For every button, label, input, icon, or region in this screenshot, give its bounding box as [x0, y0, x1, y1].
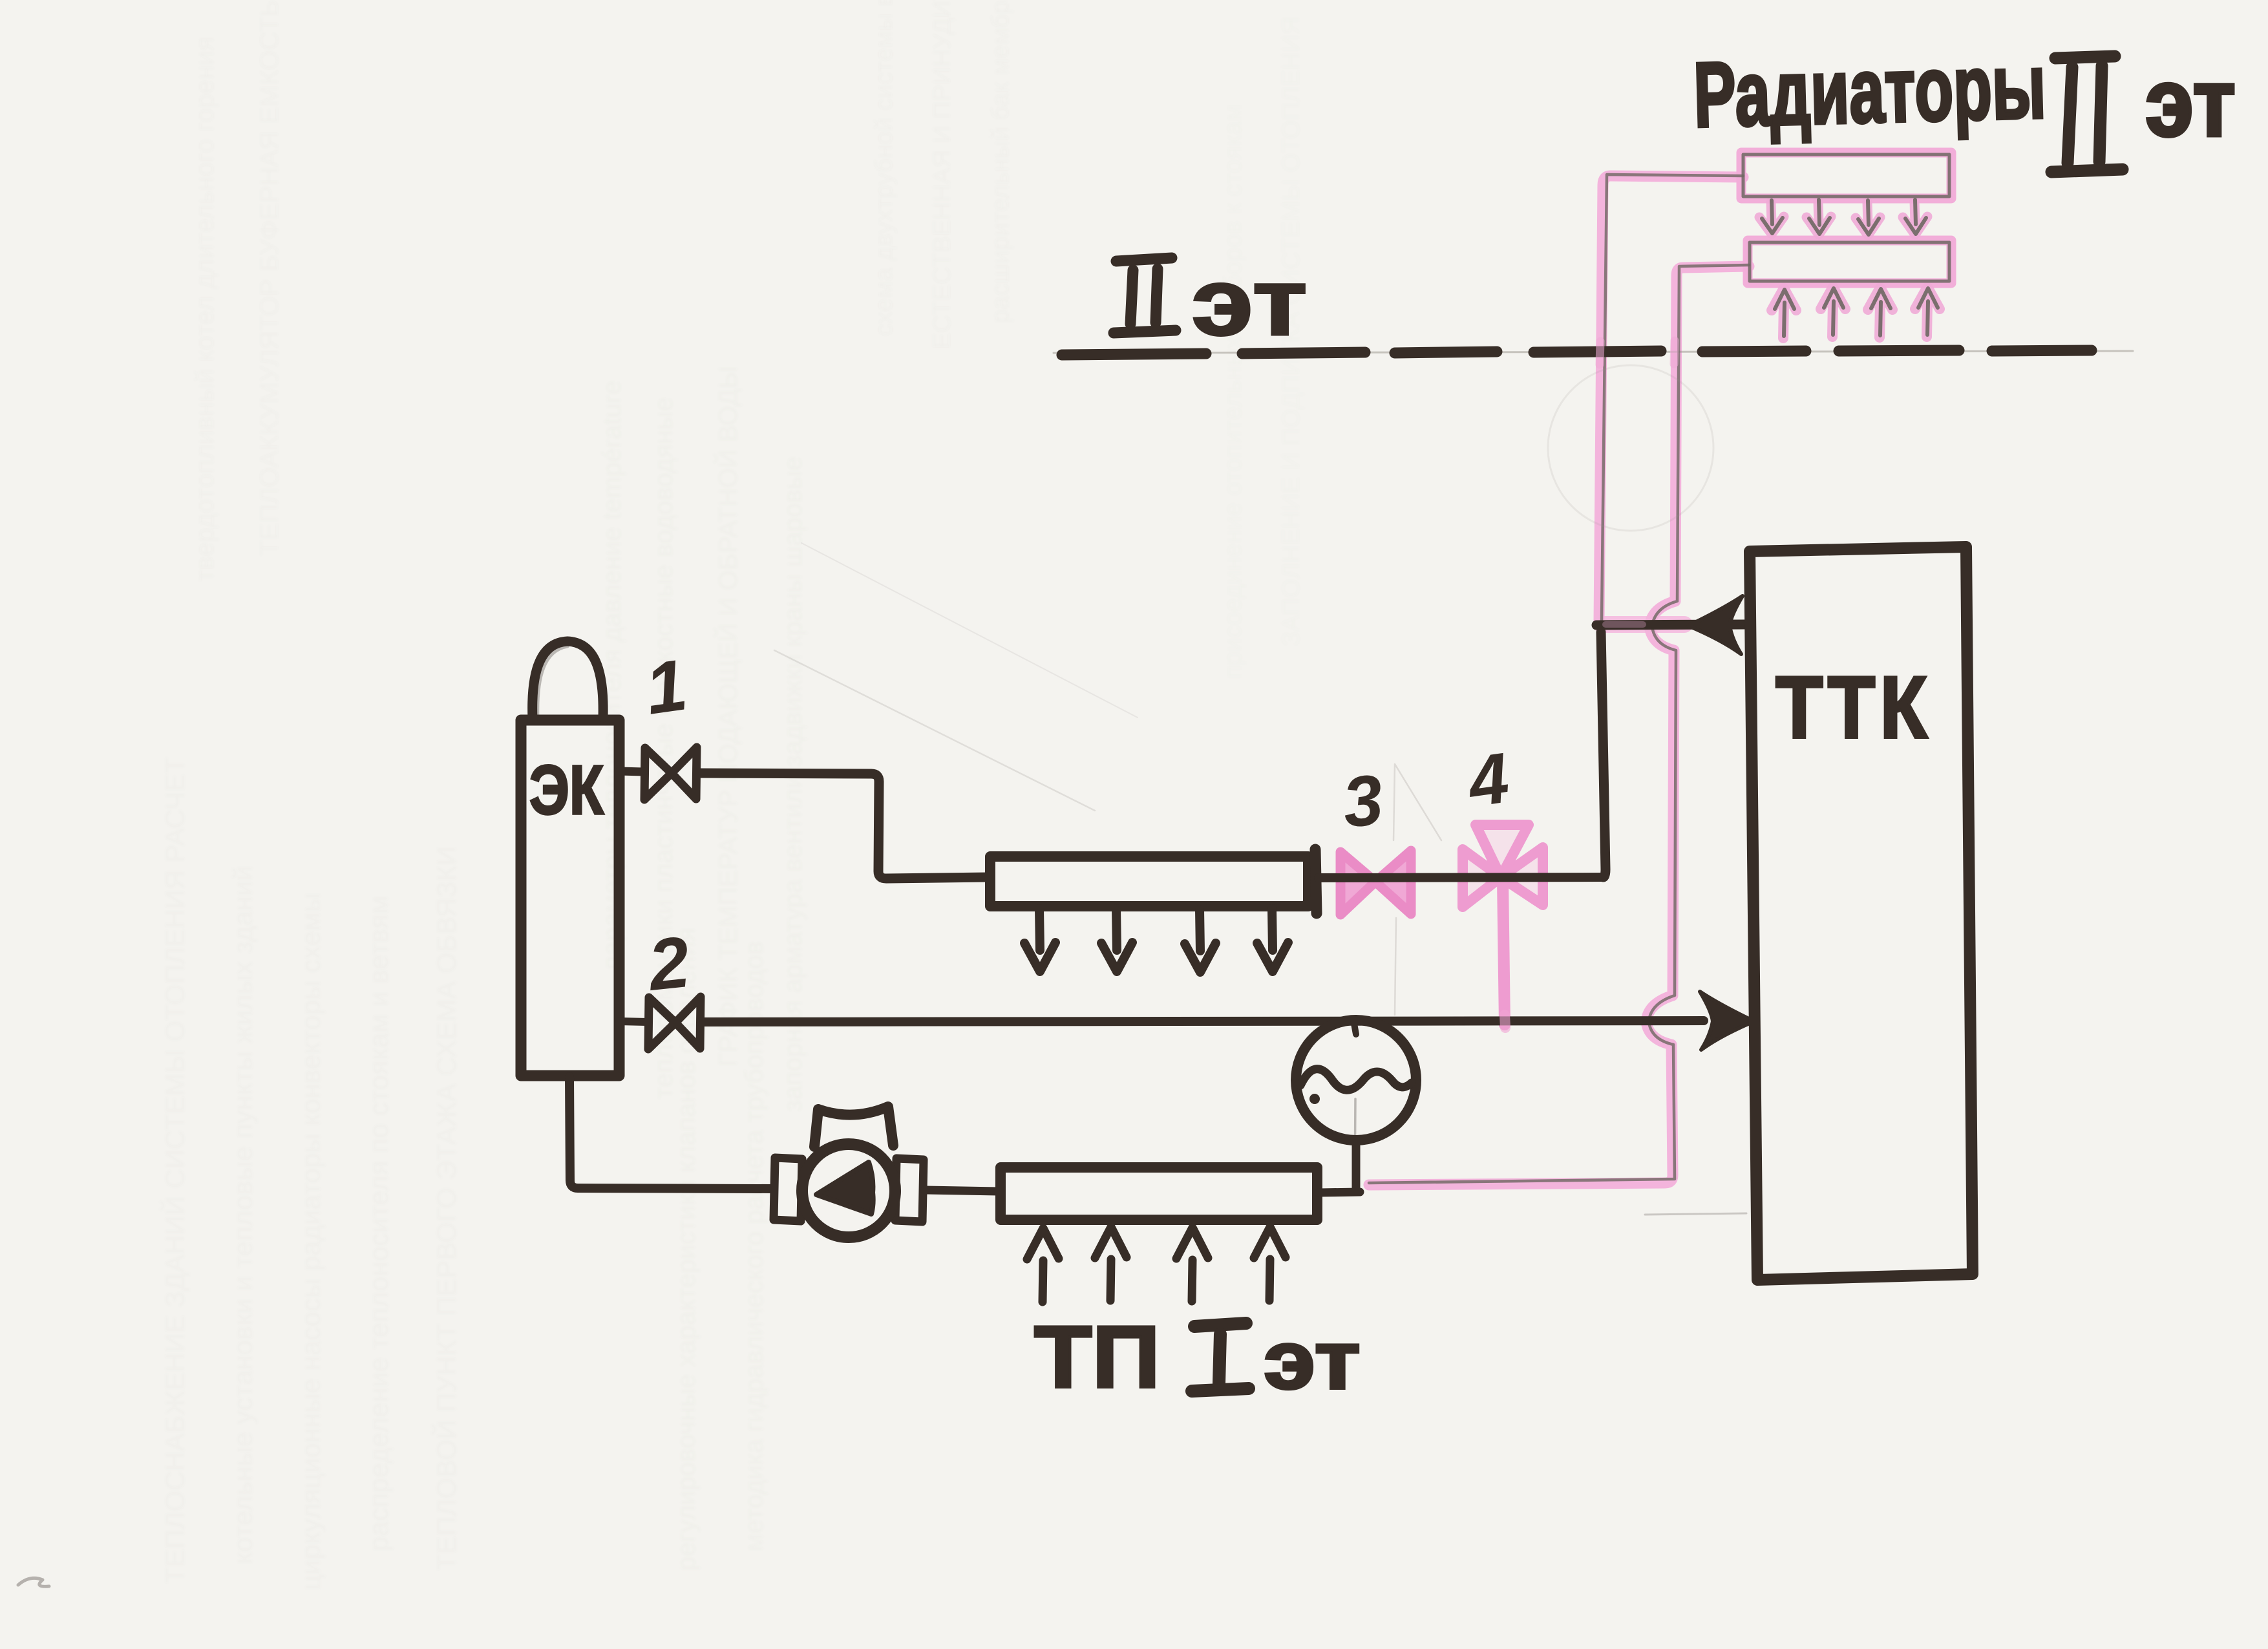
pink highlight on down arrows between radiators — [1759, 201, 1927, 235]
arrowhead pointing left out of TTK (supply) — [1688, 596, 1743, 654]
pencil X inside valve 1 — [646, 750, 695, 797]
pencil construction marks near valve 3 — [1394, 764, 1441, 1015]
down arrows under E1 — [1024, 909, 1288, 972]
pencil cores of down arrows between radiators — [1762, 200, 1926, 235]
pink crossing over floor dash (return riser) — [1674, 341, 1675, 364]
label roman I — [1192, 1323, 1249, 1391]
pencil cores of up arrows below radiator R-B — [1775, 288, 1938, 336]
pink trace over supply pipe near tee — [1606, 621, 1643, 628]
svg-text:ЭК: ЭК — [529, 750, 604, 829]
riser wire up to TTK supply tee — [1601, 632, 1606, 877]
pump right flange — [895, 1158, 924, 1222]
pump impeller triangle (points left) — [816, 1162, 873, 1214]
svg-text:ТТК: ТТК — [1775, 658, 1932, 756]
pencil stem of thermometer into pipe — [1355, 1099, 1355, 1189]
label roman II of title — [2051, 56, 2123, 172]
floor line II Et (thick black dashes) — [1062, 350, 2092, 355]
svg-text:расширительный бак мембранный: расширительный бак мембранный открытый к… — [987, 0, 1014, 323]
expansion tank EK body — [521, 720, 619, 1076]
pump top cap — [814, 1107, 893, 1147]
svg-text:присоединение отопительных при: присоединение отопительных приборов к ст… — [1220, 104, 1247, 679]
pink crossing over floor dash (supply riser) — [1600, 341, 1600, 365]
E1 right end cap — [1315, 849, 1317, 913]
svg-text:запорная арматура вентили задв: запорная арматура вентили задвижки краны… — [779, 456, 807, 1112]
thermometer bulb circle — [1296, 1020, 1416, 1140]
wire EK bottom down and right to pump — [569, 1077, 774, 1189]
pencil scribble bottom-left corner — [18, 1578, 49, 1586]
pencil arc inside EK dome — [538, 646, 567, 719]
thermometer top nick — [1353, 1020, 1356, 1034]
pink halo where marker traced supply tee pipe — [1602, 616, 1684, 633]
svg-text:ГРАФИК ТЕМПЕРАТУР ПОДАЮЩЕЙ И О: ГРАФИК ТЕМПЕРАТУР ПОДАЮЩЕЙ И ОБРАТНОЙ ВО… — [713, 366, 743, 1067]
svg-text:твердотопливный котел длительн: твердотопливный котел длительного горени… — [191, 37, 219, 582]
wire EK to valve 1 — [619, 771, 644, 772]
pump left flange — [774, 1158, 802, 1221]
valve 3 pink bowtie — [1341, 852, 1375, 915]
wire EK to valve 2 — [619, 1021, 648, 1022]
EK dome cap — [533, 641, 603, 719]
TTK boiler body — [1750, 547, 1973, 1280]
pencil inner outline radiator R-B — [1750, 242, 1949, 281]
svg-text:ЕСТЕСТВЕННАЯ И ПРИНУДИТЕЛЬНАЯ: ЕСТЕСТВЕННАЯ И ПРИНУДИТЕЛЬНАЯ ЦИРКУЛЯЦИЯ — [929, 0, 956, 349]
wire TTK supply tee to TTK wall — [1596, 624, 1745, 625]
svg-text:Радиаторы: Радиаторы — [1692, 35, 2047, 147]
arrowhead pointing right into TTK (return) — [1700, 992, 1754, 1050]
pink tip of valve-4 stem over return pipe — [1505, 1015, 1505, 1028]
pencil trace inside pink return line with hops — [1369, 265, 1749, 1183]
valve 4 pink three-way cock with stem — [1463, 825, 1543, 1025]
svg-text:эт: эт — [1191, 249, 1308, 356]
pencil ghost circle near risers — [1548, 365, 1713, 531]
wire valve 1 to corner, down, to exchanger E1 — [697, 773, 988, 878]
heat exchanger E1 (1st floor heating coil) body — [990, 856, 1308, 906]
pencil faint line right of TP exchanger — [1645, 1213, 1746, 1215]
thermometer wavy level line — [1300, 1069, 1412, 1090]
svg-text:ТЕПЛОАККУМУЛЯТОР БУФЕРНАЯ ЕМКО: ТЕПЛОАККУМУЛЯТОР БУФЕРНАЯ ЕМКОСТЬ СИСТЕМ… — [255, 0, 284, 556]
radiator R-A pink outline — [1741, 153, 1951, 198]
pump body circle — [802, 1144, 895, 1237]
valve 2 bowtie — [648, 997, 701, 1049]
svg-text:распределение теплоносителя по: распределение теплоносителя по стоякам и… — [363, 895, 394, 1551]
wire pump to TP exchanger E2 — [925, 1190, 999, 1191]
up arrows under E2 — [1027, 1227, 1286, 1302]
pencil inner outline radiator R-A — [1743, 154, 1949, 197]
svg-text:методика гидравлического расче: методика гидравлического расчета трубопр… — [740, 941, 768, 1551]
wire E1 through valves 3,4 to riser corner — [1319, 877, 1602, 878]
svg-text:эт: эт — [2145, 48, 2236, 156]
label "II" of floor line — [1114, 258, 1176, 333]
radiator R-B pink outline — [1748, 240, 1951, 283]
svg-text:котельные установки и тепловые: котельные установки и тепловые пункты жи… — [228, 866, 258, 1564]
pencil construction diagonal upper middle — [801, 543, 1138, 718]
wire pink return line from radiator R-B down to TP heat exchanger outlet, with hops over black pipes — [1369, 266, 1749, 1185]
valve 1 bowtie — [644, 747, 697, 800]
pink highlight on up arrows below radiator R-B — [1772, 287, 1940, 338]
TP exchanger E2 body — [1001, 1167, 1317, 1220]
pencil guide under dashed floor line — [1054, 351, 2133, 353]
return wire valve 2 to TTK (long) — [701, 1021, 1704, 1022]
thermometer stem — [1352, 1140, 1361, 1191]
thermometer dot — [1309, 1094, 1320, 1104]
pencil trace inside pink supply line — [1602, 175, 1743, 622]
pencil construction diagonal above exchanger — [774, 650, 1095, 811]
svg-text:3: 3 — [1339, 760, 1387, 843]
svg-text:ТЕПЛОСНАБЖЕНИЕ ЗДАНИЙ СИСТЕМЫ: ТЕПЛОСНАБЖЕНИЕ ЗДАНИЙ СИСТЕМЫ ОТОПЛЕНИЯ … — [159, 757, 190, 1584]
wire E2 right end to thermometer stem — [1319, 1192, 1360, 1193]
svg-text:эт: эт — [1264, 1314, 1361, 1407]
svg-text:ТЕПЛОВОЙ ПУНКТ ПЕРВОГО ЭТАЖА С: ТЕПЛОВОЙ ПУНКТ ПЕРВОГО ЭТАЖА СХЕМА ОБВЯЗ… — [430, 846, 461, 1571]
wire pink supply line from TTK tee up-left to 2nd floor radiator R-A — [1599, 176, 1743, 622]
svg-text:циркуляционные насосы радиатор: циркуляционные насосы радиаторы конвекто… — [295, 893, 326, 1590]
pencil X inside valve 2 — [650, 999, 699, 1047]
svg-text:схема двухтрубной системы водя: схема двухтрубной системы водяного отопл… — [871, 0, 898, 336]
svg-text:ТП: ТП — [1034, 1308, 1160, 1406]
